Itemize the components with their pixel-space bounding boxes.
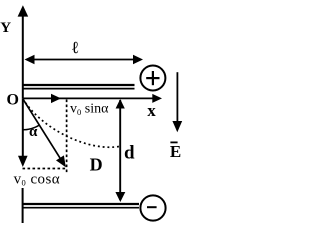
Y axis — [18, 5, 29, 99]
length arrow l — [25, 55, 144, 64]
minus terminal — [140, 195, 165, 220]
v0 cos(alpha) vector — [18, 99, 28, 167]
angle alpha arc — [23, 125, 40, 130]
svg-text:v0 sinα: v0 sinα — [70, 101, 109, 117]
svg-text:D: D — [90, 154, 103, 174]
svg-text:O: O — [7, 92, 19, 109]
svg-text:d: d — [124, 143, 135, 164]
dashed component rectangle bottom — [23, 168, 67, 170]
svg-text:E: E — [170, 142, 181, 161]
dotted trajectory — [23, 99, 120, 147]
svg-text:ℓ: ℓ — [72, 38, 79, 57]
v0 vector (diagonal) — [23, 99, 66, 167]
svg-text:Y: Y — [0, 20, 11, 36]
dashed component rectangle right — [66, 100, 68, 175]
svg-text:v0 cosα: v0 cosα — [14, 172, 61, 188]
bottom plate terminal wire — [22, 188, 24, 223]
x axis — [23, 94, 162, 103]
top plate — [22, 85, 135, 89]
svg-text:α: α — [29, 124, 38, 140]
plus terminal — [140, 66, 165, 91]
bottom plate — [22, 204, 139, 208]
svg-text:x: x — [147, 101, 156, 120]
v0 sin(alpha) vector head on x axis — [51, 94, 61, 103]
E field arrow — [172, 72, 182, 132]
d measurement line — [115, 99, 125, 202]
